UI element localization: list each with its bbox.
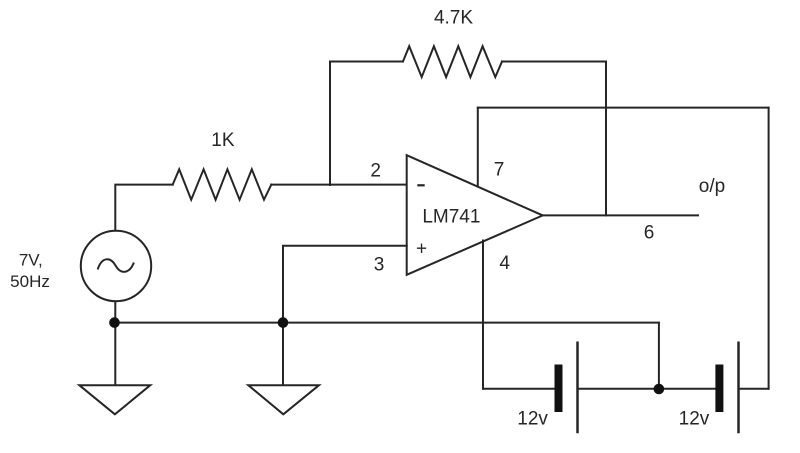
wire: source top to resistor R1 (115, 185, 172, 231)
svg-text:4: 4 (499, 253, 510, 274)
wire: positive supply right vertical (768, 108, 770, 389)
voltage source V1 circle (81, 231, 151, 301)
svg-text:7: 7 (494, 160, 505, 181)
ground symbol 1 (79, 385, 150, 414)
node: battery midpoint junction (654, 384, 665, 395)
wire: pin 7 vertical (477, 108, 479, 186)
battery B2 positive plate (thin) (737, 343, 740, 432)
wire: battery B2 to supply vertical (739, 388, 769, 390)
node: source/ground junction (109, 317, 120, 328)
wire: pin 2 input wire (271, 184, 406, 186)
wire: rail drop to battery midpoint (658, 323, 660, 389)
wire: battery B1 to midpoint junction (578, 388, 716, 390)
svg-text:12v: 12v (679, 408, 710, 429)
wire: positive supply top rail (478, 107, 769, 109)
svg-text:4.7K: 4.7K (434, 7, 473, 28)
resistor R1 1K zigzag (173, 169, 272, 199)
battery B2 negative plate (thick) (715, 365, 723, 413)
wire: source bottom to rail (114, 301, 116, 322)
svg-text:50Hz: 50Hz (10, 272, 50, 291)
wire: pin 4 vertical (482, 241, 484, 389)
wire: pin 3 input wire (283, 246, 407, 323)
svg-text:1K: 1K (211, 130, 235, 151)
op-amp inverting input marker - (417, 184, 424, 186)
svg-text:o/p: o/p (699, 176, 725, 197)
svg-text:2: 2 (370, 161, 381, 182)
node: pin3/ground junction (278, 317, 289, 328)
svg-text:6: 6 (644, 223, 655, 244)
svg-text:+: + (416, 239, 427, 260)
op-amp U1 triangle (407, 155, 543, 275)
svg-text:7V,: 7V, (19, 251, 43, 270)
battery B1 negative plate (thick) (555, 365, 563, 413)
wire: feedback top right segment (502, 61, 606, 63)
svg-text:LM741: LM741 (422, 206, 480, 227)
wire: output pin 6 (543, 214, 698, 216)
wire: bottom ground rail (115, 322, 659, 324)
wire: feedback left vertical (330, 62, 403, 186)
ground symbol 2 (248, 385, 319, 414)
wire: ground 1 drop (114, 323, 116, 386)
wire: ground 2 drop (282, 323, 284, 386)
resistor R2 4.7K zigzag (403, 46, 502, 77)
battery B1 positive plate (thin) (576, 343, 579, 432)
wire: pin 4 to battery B1 (483, 388, 555, 390)
wire: feedback right vertical to output (605, 62, 607, 216)
voltage source V1 sine symbol (98, 259, 134, 272)
svg-text:3: 3 (374, 254, 385, 275)
svg-text:12v: 12v (517, 408, 548, 429)
